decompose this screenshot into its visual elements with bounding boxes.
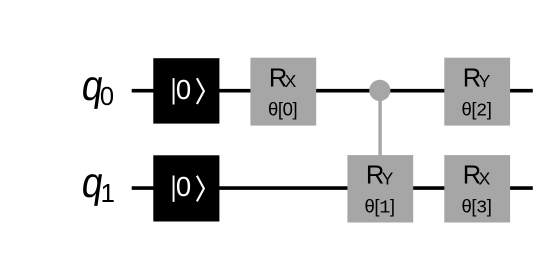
svg-text:0: 0 bbox=[176, 74, 191, 105]
gate RX theta[0] bbox=[250, 58, 316, 126]
svg-text:θ[2]: θ[2] bbox=[461, 98, 491, 121]
qubit label q0 bbox=[79, 61, 114, 111]
svg-text:0: 0 bbox=[176, 171, 191, 202]
initial state |0> box q1 bbox=[153, 155, 219, 221]
svg-text:1: 1 bbox=[101, 178, 115, 208]
wire q0 bbox=[132, 89, 533, 93]
svg-text:θ[1]: θ[1] bbox=[365, 196, 395, 219]
svg-text:θ[3]: θ[3] bbox=[461, 196, 491, 219]
svg-text:θ[0]: θ[0] bbox=[268, 98, 297, 119]
gate RY theta[1] bbox=[347, 155, 413, 222]
qubit label q1 bbox=[79, 158, 115, 208]
svg-text:0: 0 bbox=[100, 83, 114, 111]
control dot on q0 bbox=[369, 80, 390, 101]
initial state |0> box q0 bbox=[153, 58, 219, 123]
wire q1 bbox=[132, 186, 533, 190]
control-target connector wire bbox=[378, 90, 381, 155]
gate RX theta[3] bbox=[444, 155, 510, 222]
gate RY theta[2] bbox=[444, 58, 510, 126]
